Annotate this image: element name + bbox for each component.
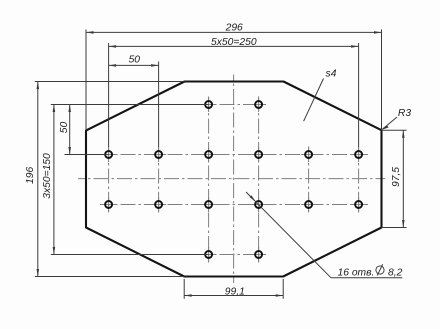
hole r1c3 <box>205 101 212 108</box>
hole center crosses <box>201 104 216 106</box>
dim 5x50=250 <box>109 45 359 47</box>
centerline row3 <box>100 204 368 206</box>
centerline col4 <box>258 97 260 263</box>
hole r2c3 <box>205 151 212 158</box>
svg-text:50: 50 <box>129 54 141 65</box>
centerline row1 <box>200 104 266 106</box>
svg-text:196: 196 <box>25 167 36 184</box>
svg-text:50: 50 <box>59 122 70 134</box>
centerline horizontal axis <box>78 178 385 180</box>
centerline col5 <box>308 147 310 213</box>
centerline row2 <box>100 154 368 156</box>
hole r2c5 <box>305 151 312 158</box>
svg-text:s4: s4 <box>326 69 337 80</box>
centerline vertical axis <box>233 75 235 284</box>
svg-text:97,5: 97,5 <box>391 167 402 187</box>
hole r2c6 <box>355 151 362 158</box>
diameter symbol <box>376 266 384 274</box>
dim 99,1 <box>184 295 283 297</box>
centerline col1 <box>108 147 110 213</box>
svg-text:16 отв.: 16 отв. <box>338 268 375 279</box>
hole r3c4 <box>255 201 262 208</box>
dim 50 left <box>69 105 71 155</box>
dim 50 top <box>109 64 159 66</box>
centerline row4 <box>200 254 266 256</box>
hole r3c6 <box>355 201 362 208</box>
hole r3c5 <box>305 201 312 208</box>
hole r1c4 <box>255 101 262 108</box>
plate outline <box>86 82 382 277</box>
hole r3c2 <box>155 201 162 208</box>
svg-text:8,2: 8,2 <box>388 268 403 279</box>
hole r2c4 <box>255 151 262 158</box>
label R3 <box>382 117 397 129</box>
leader 16 holes <box>246 192 331 278</box>
hole r2c2 <box>155 151 162 158</box>
dim 97,5 <box>402 130 404 227</box>
svg-text:3x50=150: 3x50=150 <box>42 153 53 199</box>
hole r4c4 <box>255 251 262 258</box>
svg-text:99,1: 99,1 <box>225 286 245 297</box>
hole r4c3 <box>205 251 212 258</box>
centerline col2 <box>158 147 160 213</box>
centerline col6 <box>358 147 360 213</box>
dim 196 <box>37 82 39 277</box>
dim 296 <box>86 31 382 33</box>
hole r3c3 <box>205 201 212 208</box>
label s4 <box>304 79 324 122</box>
svg-text:5x50=250: 5x50=250 <box>211 37 257 48</box>
hole r2c1 <box>105 151 112 158</box>
extension lines <box>85 30 87 131</box>
centerline col3 <box>208 97 210 263</box>
svg-text:R3: R3 <box>398 108 411 119</box>
hole r3c1 <box>105 201 112 208</box>
svg-text:296: 296 <box>225 22 243 33</box>
dim 3x50=150 <box>53 105 55 255</box>
